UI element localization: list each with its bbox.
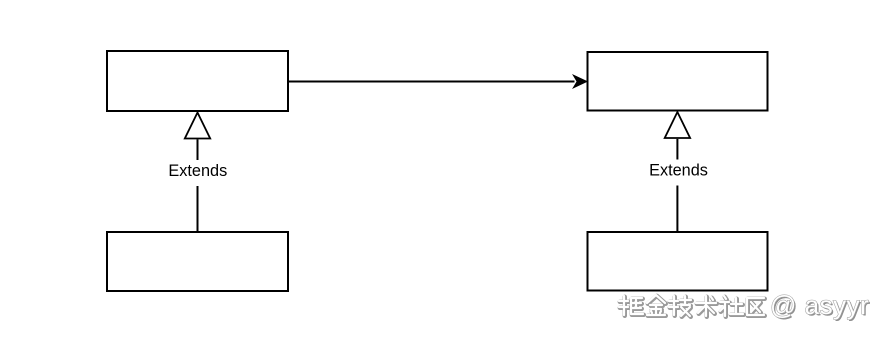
技: [670, 297, 692, 317]
wire left vertical lower: [197, 186, 199, 231]
svg-text:Extends: Extends: [649, 162, 708, 180]
wire right vertical lower: [676, 186, 678, 232]
box bottom-left: [107, 232, 288, 291]
社: [721, 297, 744, 317]
triangle left (extends): [185, 113, 210, 139]
watermark: [619, 290, 871, 322]
金: [648, 296, 666, 316]
掘: [620, 297, 644, 316]
wire arrow horizontal: [288, 81, 575, 83]
arrowhead: [573, 75, 587, 88]
CJK glyph strokes: 掘金技术社区 simplified, shadow then white: [619, 295, 765, 317]
wire left vertical upper: [197, 139, 199, 160]
box top-right: [588, 52, 768, 111]
svg-text:Extends: Extends: [168, 162, 227, 180]
box top-left: [107, 51, 288, 111]
术: [697, 297, 717, 317]
box bottom-right: [588, 232, 768, 291]
wire right vertical upper: [676, 139, 678, 160]
svg-text:@ asyyr: @ asyyr: [770, 290, 869, 320]
triangle right (extends): [665, 112, 690, 138]
区: [748, 299, 765, 316]
